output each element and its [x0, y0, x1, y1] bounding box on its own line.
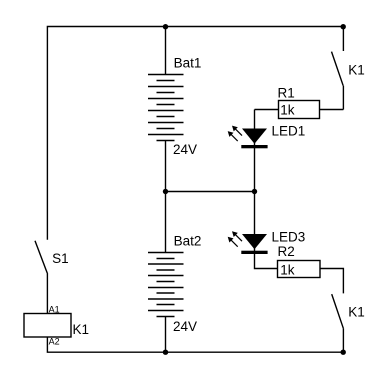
svg-text:A2: A2: [49, 336, 60, 346]
svg-text:K1: K1: [73, 322, 90, 337]
svg-text:K1: K1: [348, 62, 365, 77]
svg-text:S1: S1: [52, 251, 69, 266]
svg-text:LED3: LED3: [272, 230, 306, 245]
svg-text:R2: R2: [278, 244, 295, 259]
svg-text:A1: A1: [49, 304, 60, 314]
svg-text:Bat1: Bat1: [174, 56, 202, 71]
svg-text:24V: 24V: [173, 319, 197, 334]
svg-text:24V: 24V: [173, 142, 197, 157]
svg-text:R1: R1: [278, 85, 295, 100]
svg-text:1k: 1k: [280, 263, 295, 278]
svg-text:LED1: LED1: [272, 124, 306, 139]
svg-text:K1: K1: [348, 304, 365, 319]
svg-text:1k: 1k: [280, 103, 295, 118]
svg-text:Bat2: Bat2: [174, 233, 202, 248]
